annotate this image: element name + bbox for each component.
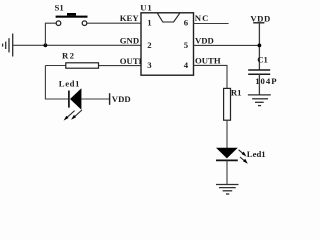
svg-text:VDD: VDD <box>112 94 131 104</box>
svg-text:U1: U1 <box>140 2 152 12</box>
svg-text:Led1: Led1 <box>247 149 266 159</box>
svg-text:104P: 104P <box>255 76 277 86</box>
power VDD (top right) <box>250 13 270 70</box>
svg-text:OUTH: OUTH <box>195 56 221 66</box>
svg-text:2: 2 <box>147 40 151 50</box>
svg-text:R2: R2 <box>62 51 75 61</box>
wire: R1 bottom to Led1 (right) <box>226 120 228 148</box>
svg-text:5: 5 <box>184 40 189 50</box>
svg-text:NC: NC <box>195 13 210 23</box>
svg-text:S1: S1 <box>55 3 64 13</box>
svg-text:4: 4 <box>184 60 189 70</box>
LED Led1 (left) <box>59 78 82 120</box>
ground (left chassis, rotated earth) <box>3 34 13 57</box>
wire: down from R2 left lead to Led1 anode row <box>45 66 68 100</box>
svg-text:KEY: KEY <box>120 13 140 23</box>
wire OUTL net: R2 right to IC pin 3 <box>99 65 142 67</box>
wire: Led1 anode to VDD tick <box>81 98 109 100</box>
junction dot <box>44 43 48 47</box>
power VDD (left, by Led1) <box>110 93 131 105</box>
wire NC stub from pin 6 <box>194 23 229 25</box>
wire GND net: left ground to IC pin 2 <box>13 44 141 46</box>
svg-text:GND: GND <box>120 35 139 45</box>
resistor R1 <box>224 88 242 121</box>
op-amp / IC U1 <box>140 2 193 75</box>
wire VDD net: pin 5 to C1 column <box>194 44 260 46</box>
ground (bottom right) <box>216 185 239 195</box>
svg-text:VDD: VDD <box>250 13 270 23</box>
wire: branch up from junction to switch S1 left terminal <box>45 23 56 45</box>
ground (below C1) <box>248 95 271 106</box>
capacitor C1 <box>248 54 277 86</box>
svg-text:R1: R1 <box>231 88 242 98</box>
LED Led1 (right) <box>216 148 266 164</box>
svg-text:6: 6 <box>184 18 189 28</box>
junction dot (VDD net / C1) <box>258 44 262 48</box>
wire OUTH net: pin 4 right then down to R1 <box>194 65 228 88</box>
svg-text:Led1: Led1 <box>59 78 80 88</box>
svg-text:VDD: VDD <box>195 35 214 45</box>
wire: C1 bottom plate to ground <box>258 74 260 95</box>
wire: R2 left lead <box>45 65 65 67</box>
wire: Led1 cathode to ground <box>226 160 228 184</box>
switch S1 <box>55 3 88 26</box>
svg-text:3: 3 <box>147 60 152 70</box>
svg-text:1: 1 <box>147 18 151 28</box>
resistor R2 <box>62 51 99 68</box>
svg-text:C1: C1 <box>257 54 268 64</box>
wire KEY net: switch right terminal to IC pin 1 <box>87 22 141 24</box>
